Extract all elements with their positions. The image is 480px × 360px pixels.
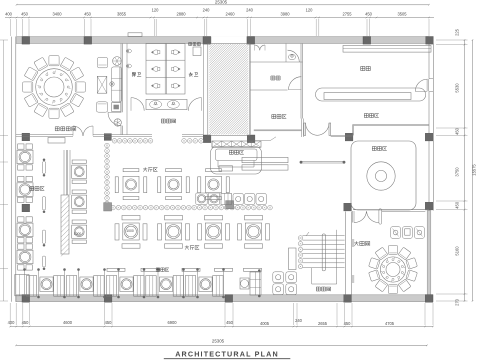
svg-text:240: 240 [246, 8, 254, 13]
svg-text:5160: 5160 [455, 246, 460, 256]
svg-text:240: 240 [295, 318, 303, 323]
svg-text:120: 120 [306, 8, 314, 13]
svg-text:400: 400 [8, 320, 16, 325]
svg-text:2460: 2460 [225, 11, 235, 16]
svg-text:450: 450 [455, 127, 460, 135]
svg-text:25305: 25305 [215, 0, 228, 5]
svg-text:450: 450 [105, 320, 113, 325]
svg-text:1000: 1000 [74, 232, 82, 236]
svg-text:3400: 3400 [52, 11, 62, 16]
svg-text:450: 450 [344, 321, 352, 326]
svg-text:2880: 2880 [176, 11, 186, 16]
svg-text:450: 450 [365, 11, 373, 16]
svg-text:4705: 4705 [385, 321, 395, 326]
svg-text:240: 240 [203, 8, 211, 13]
svg-text:225: 225 [455, 28, 460, 36]
svg-text:270: 270 [455, 298, 460, 306]
svg-text:3855: 3855 [117, 11, 127, 16]
svg-text:1000: 1000 [126, 229, 134, 233]
svg-text:450: 450 [21, 11, 29, 16]
svg-text:2755: 2755 [342, 11, 352, 16]
svg-text:6900: 6900 [167, 320, 177, 325]
svg-text:400: 400 [5, 11, 13, 16]
svg-text:3750: 3750 [455, 167, 460, 177]
svg-text:450: 450 [84, 11, 92, 16]
svg-text:25305: 25305 [212, 339, 225, 344]
svg-text:2655: 2655 [318, 321, 328, 326]
svg-text:3505: 3505 [397, 11, 407, 16]
svg-text:4600: 4600 [63, 320, 73, 325]
svg-text:450: 450 [226, 320, 234, 325]
svg-text:4005: 4005 [260, 321, 270, 326]
svg-text:ARCHITECTURAL PLAN: ARCHITECTURAL PLAN [175, 349, 279, 358]
svg-text:15575: 15575 [472, 164, 477, 176]
svg-text:3980: 3980 [280, 11, 290, 16]
svg-text:450: 450 [455, 201, 460, 209]
svg-text:120: 120 [152, 8, 160, 13]
svg-text:5530: 5530 [455, 83, 460, 93]
